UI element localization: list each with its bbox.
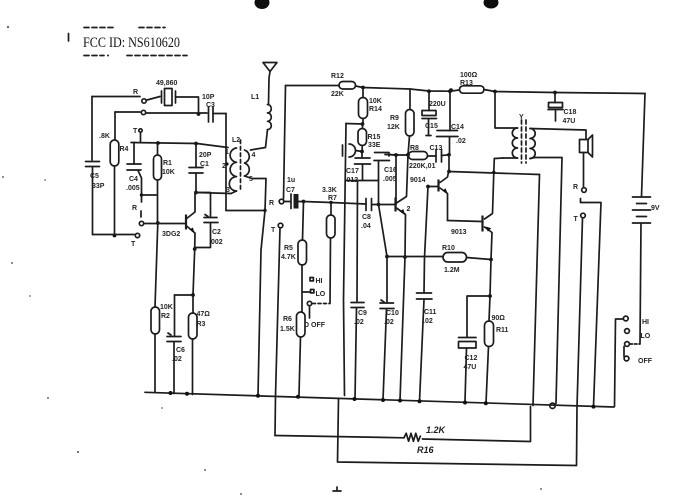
- svg-text:C18: C18: [564, 109, 577, 116]
- svg-text:33E: 33E: [368, 142, 381, 149]
- switch contact battery (power): [625, 342, 630, 347]
- node Q3 base: [426, 185, 430, 189]
- wire speaker to R contact: [583, 153, 585, 188]
- svg-text:9V: 9V: [651, 205, 660, 212]
- switch contact HI: [310, 278, 313, 281]
- node rail C12: [463, 401, 467, 405]
- switch contact LO: [311, 290, 314, 293]
- wire secondary top to speaker: [530, 129, 586, 140]
- L2 secondary winding: [245, 150, 250, 176]
- svg-text:C7: C7: [286, 187, 295, 194]
- svg-text:HI: HI: [642, 319, 649, 326]
- wire Q4 emitter chain: [489, 260, 491, 322]
- switch contact R (crystal row): [142, 99, 146, 103]
- node Q1 emitter: [193, 247, 197, 251]
- switch contact OFF (power): [624, 356, 629, 361]
- Y primary winding: [495, 92, 518, 129]
- switch contact D: [307, 301, 311, 305]
- switch power pole: [615, 319, 623, 407]
- switch contact O (base row): [139, 221, 143, 225]
- switch contact T (speaker): [581, 213, 586, 218]
- svg-text:LO: LO: [641, 333, 651, 340]
- wire C16 node to C10: [379, 205, 388, 303]
- svg-text:R: R: [132, 205, 137, 212]
- capacitor C12 47U: [467, 296, 490, 337]
- node rail C10: [381, 398, 385, 402]
- node R9 bottom: [406, 153, 410, 157]
- wire V+ drop to R contact: [284, 86, 286, 200]
- svg-text:1.2K: 1.2K: [426, 425, 447, 435]
- svg-text:2: 2: [222, 163, 226, 170]
- wire V+ rail mid: [356, 86, 451, 91]
- svg-text:1: 1: [225, 149, 229, 156]
- svg-text:C16: C16: [384, 167, 397, 174]
- wire L1 to L2 pin4: [251, 130, 268, 151]
- svg-text:90Ω: 90Ω: [492, 315, 506, 322]
- svg-text:1u: 1u: [287, 177, 295, 184]
- svg-text:R15: R15: [368, 134, 381, 141]
- wire C13 node to collector node: [448, 155, 450, 172]
- node C4 bottom: [140, 193, 143, 196]
- wire Q2 emitter to ground: [400, 257, 405, 401]
- svg-text:.005: .005: [383, 176, 397, 183]
- svg-text:R1: R1: [163, 160, 172, 167]
- node rail pole: [256, 394, 260, 398]
- node Q4 collector crossing: [492, 171, 495, 174]
- bottom center tick mark: [333, 487, 341, 491]
- svg-text:10K: 10K: [162, 169, 175, 176]
- svg-text:C8: C8: [362, 214, 371, 221]
- svg-text:49,860: 49,860: [156, 80, 178, 87]
- L2 primary winding: [229, 148, 236, 191]
- ground rail: [145, 392, 614, 407]
- svg-text:47Ω: 47Ω: [197, 311, 211, 318]
- svg-text:R12: R12: [331, 73, 344, 80]
- svg-text:FCC ID: NS610620: FCC ID: NS610620: [83, 35, 180, 51]
- svg-text:.04: .04: [361, 223, 371, 230]
- svg-text:.8K: .8K: [99, 133, 110, 140]
- svg-text:C10: C10: [386, 310, 399, 317]
- switch contact T (osc bottom): [135, 233, 139, 237]
- speck marks: [2, 26, 542, 495]
- node R10 left: [385, 255, 389, 259]
- svg-text:2: 2: [407, 206, 411, 213]
- node Y primary top: [493, 90, 497, 94]
- svg-text:220U: 220U: [429, 101, 446, 108]
- svg-text:12K: 12K: [387, 124, 400, 131]
- node Q1 base: [156, 221, 160, 225]
- svg-text:T: T: [574, 216, 579, 223]
- capacitor C11 .02: [417, 293, 433, 299]
- node rail C6: [169, 391, 173, 395]
- wire secondary bottom: [530, 158, 562, 404]
- wire collector row to right: [449, 172, 540, 175]
- svg-text:10P: 10P: [202, 94, 215, 101]
- wire emitter down: [193, 249, 195, 295]
- capacitor C17 .012: [361, 152, 363, 158]
- wire pole down to ground: [258, 211, 265, 396]
- svg-text:R16: R16: [417, 445, 435, 455]
- node rail C9: [353, 397, 357, 401]
- svg-text:R4: R4: [120, 146, 129, 153]
- node C13 right: [447, 153, 451, 157]
- contact rail open circle: [550, 403, 555, 408]
- wire Q3 base drop to C11: [424, 187, 428, 293]
- node rail C11: [418, 399, 422, 403]
- title dashed rule top: [84, 27, 165, 29]
- switch contact T (crystal row): [141, 110, 145, 114]
- svg-text:R5: R5: [284, 245, 293, 252]
- wire crystal to corner: [176, 97, 199, 114]
- transistor Q2: [394, 198, 396, 212]
- svg-text:T: T: [131, 241, 136, 248]
- wire C3 to drop: [213, 113, 226, 115]
- wire node to C6: [175, 294, 194, 296]
- capacitor coupling osc (arc style): [342, 145, 344, 156]
- svg-text:10K: 10K: [160, 304, 173, 311]
- speaker: [580, 140, 589, 153]
- punch hole right: [484, 0, 499, 9]
- svg-text:R2: R2: [161, 313, 170, 320]
- wire tap row: [226, 210, 265, 212]
- punch hole left: [255, 0, 270, 9]
- svg-text:100Ω: 100Ω: [460, 72, 478, 79]
- svg-text:3: 3: [226, 187, 230, 194]
- wire audio node row: [304, 202, 367, 205]
- Y secondary winding: [530, 129, 535, 159]
- node rail R3: [185, 392, 189, 396]
- wire top rail left: [92, 96, 140, 98]
- Y core: [522, 120, 527, 163]
- svg-text:10K: 10K: [369, 98, 382, 105]
- svg-text:R7: R7: [328, 195, 337, 202]
- svg-text:9014: 9014: [410, 177, 426, 184]
- capacitor C4 .005: [133, 143, 135, 165]
- capacitor C5 33P: [86, 162, 100, 167]
- svg-text:47U: 47U: [563, 118, 576, 125]
- node R14 top: [361, 86, 365, 90]
- capacitor C2 .002: [196, 193, 211, 218]
- wire V+ rail left: [286, 85, 340, 87]
- wire LO to R5R6: [302, 291, 310, 293]
- switch contact LO (power): [625, 329, 630, 334]
- svg-text:R10: R10: [442, 245, 455, 252]
- svg-text:T: T: [271, 227, 276, 234]
- wire mid rail: [131, 143, 228, 148]
- capacitor C9 .02: [356, 181, 359, 302]
- node R15 bottom: [360, 150, 364, 154]
- svg-text:C4: C4: [129, 176, 138, 183]
- node R8 left: [394, 153, 398, 157]
- svg-text:1.2M: 1.2M: [444, 267, 460, 274]
- node rail R6: [296, 395, 300, 399]
- node R7 top: [329, 201, 332, 204]
- wire collector node to L2 pin3: [196, 193, 231, 194]
- wire T contact to feedback1: [275, 228, 280, 436]
- wire feedback1 with resistor R16: [275, 436, 404, 438]
- svg-text:L1: L1: [251, 94, 259, 101]
- wire R14 node to left vertical: [346, 123, 363, 126]
- wire R10 row: [387, 256, 443, 258]
- node mid rail C1: [194, 142, 198, 146]
- node R10 right: [489, 258, 493, 262]
- svg-text:220K,01: 220K,01: [409, 163, 436, 170]
- svg-text:C6: C6: [176, 347, 185, 354]
- node R14 bottom: [361, 122, 365, 126]
- L2 core: [240, 140, 242, 192]
- svg-text:R: R: [133, 89, 138, 96]
- node rail Q2e: [398, 399, 402, 403]
- wire second row: [115, 111, 140, 113]
- svg-text:33P: 33P: [92, 183, 105, 190]
- wire left branch down to C5: [91, 97, 93, 161]
- node Q3 collector: [447, 170, 451, 174]
- wire C4 node to R1 line: [142, 194, 157, 196]
- svg-text:OFF: OFF: [638, 358, 653, 365]
- capacitor C6 .02: [174, 295, 176, 336]
- capacitor C10 .02: [381, 300, 384, 302]
- svg-text:20P: 20P: [199, 152, 212, 159]
- wire C3 drop to tap: [225, 114, 227, 211]
- svg-text:3.3K: 3.3K: [322, 187, 337, 194]
- svg-text:C17: C17: [346, 168, 359, 175]
- svg-text:1.5K: 1.5K: [280, 326, 295, 333]
- svg-text:C2: C2: [212, 229, 221, 236]
- svg-text:4: 4: [252, 152, 256, 159]
- wire long left vertical: [344, 124, 347, 396]
- node tap wire: [263, 209, 266, 212]
- svg-text:C5: C5: [90, 173, 99, 180]
- svg-text:R6: R6: [283, 316, 292, 323]
- svg-text:.02: .02: [456, 138, 466, 145]
- svg-text:R9: R9: [390, 115, 399, 122]
- node mid rail R1: [156, 141, 160, 145]
- wire C5 to bottom: [92, 167, 94, 235]
- node Q2 emitter R10: [403, 255, 407, 259]
- node crystal-C3: [197, 112, 201, 116]
- svg-text:22K: 22K: [331, 91, 344, 98]
- resistor R4 .8K: [114, 112, 116, 140]
- node rail R11: [484, 401, 488, 405]
- wire feedback1 right to rail: [422, 407, 530, 442]
- wire osc bottom to T contact: [93, 234, 135, 236]
- svg-text:C15: C15: [425, 123, 438, 130]
- node rail speaker line: [592, 405, 596, 409]
- node C18 top: [553, 91, 557, 95]
- wire Q3 emitter to Q4 base: [448, 221, 483, 222]
- title dashed rule bottom: [84, 55, 187, 57]
- svg-text:.002: .002: [209, 239, 223, 246]
- capacitor C8 .04: [366, 199, 372, 211]
- node R4 bottom: [113, 234, 117, 238]
- switch contact HI (power): [623, 316, 628, 321]
- wire collector row drop to rail: [533, 175, 540, 406]
- svg-text:R: R: [573, 184, 578, 191]
- svg-text:4.7K: 4.7K: [281, 254, 296, 261]
- wire T contact feedback2: [338, 218, 583, 466]
- wire bias drop: [395, 155, 397, 205]
- switch contact T (audio in): [278, 223, 283, 228]
- svg-text:R: R: [269, 200, 274, 207]
- svg-text:L2: L2: [232, 137, 240, 144]
- svg-text:HI: HI: [316, 278, 323, 285]
- svg-text:R3: R3: [197, 321, 206, 328]
- node Q1 collector: [194, 191, 198, 195]
- svg-text:C9: C9: [358, 310, 367, 317]
- node C12 branch: [488, 294, 492, 298]
- svg-text:LO: LO: [316, 291, 326, 298]
- svg-text:R14: R14: [369, 106, 382, 113]
- svg-text:T: T: [133, 128, 138, 135]
- node C8 Q2 base: [377, 203, 381, 207]
- antenna: [263, 63, 277, 72]
- svg-text:R11: R11: [496, 327, 509, 334]
- wire C17 bottom row: [346, 180, 379, 182]
- wire speaker pole row: [581, 199, 602, 407]
- wire to C3: [146, 112, 207, 114]
- svg-text:3DG2: 3DG2: [162, 231, 180, 238]
- node C7 out: [302, 200, 306, 204]
- svg-text:9013: 9013: [451, 229, 467, 236]
- svg-text:C11: C11: [424, 309, 437, 316]
- node emitter-R3: [191, 293, 195, 297]
- wire R8 row: [385, 154, 409, 157]
- svg-text:.02: .02: [423, 318, 433, 325]
- svg-text:D OFF: D OFF: [304, 322, 326, 329]
- wire pin5 to pole: [245, 176, 267, 211]
- svg-text:.005: .005: [126, 185, 140, 192]
